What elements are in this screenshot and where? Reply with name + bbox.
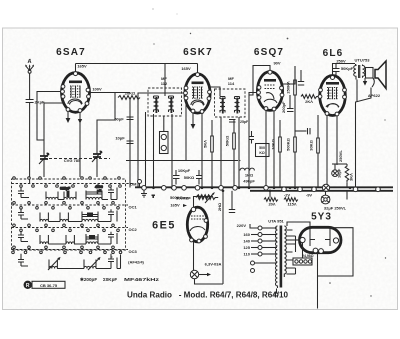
capacitor AF coupling: [229, 191, 235, 213]
wire MF112 primary down: [171, 114, 173, 188]
svg-text:165V: 165V: [170, 203, 180, 208]
resistor 30K: [309, 115, 320, 188]
wire MF114 left down: [220, 117, 222, 188]
svg-text:OC2: OC2: [129, 227, 138, 232]
resistor 20KOhm: [118, 91, 140, 100]
svg-text:250KΛ: 250KΛ: [286, 81, 291, 94]
bus terminals: [142, 186, 381, 192]
svg-text:2KΛ: 2KΛ: [305, 99, 313, 104]
variable capacitor CVG gang 2: [92, 150, 103, 162]
choke 1H: [240, 168, 254, 177]
svg-text:OC1: OC1: [129, 205, 138, 210]
svg-text:50pF: 50pF: [114, 117, 124, 122]
svg-text:32μF 250VL: 32μF 250VL: [324, 206, 347, 211]
switch row OM: [12, 182, 138, 187]
svg-text:250VL: 250VL: [338, 150, 343, 162]
resistor 10K: [271, 120, 282, 188]
wire AVC long line: [126, 160, 238, 162]
svg-text:6SQ7: 6SQ7: [254, 47, 284, 58]
electrolytic 32uF on bus: [322, 184, 329, 191]
wire 6SA7 top cap to AVC line: [75, 64, 77, 72]
svg-text:220V: 220V: [237, 223, 247, 228]
svg-text:2HΩ: 2HΩ: [217, 202, 222, 211]
switch contacts row OC2: [13, 224, 120, 232]
node grid line left: [44, 98, 63, 152]
terminal OM out: [138, 180, 142, 188]
lamp 6,3V-03A: [190, 262, 221, 279]
svg-text:6L6: 6L6: [323, 48, 344, 59]
svg-text:10KΩ: 10KΩ: [271, 138, 276, 149]
svg-text:-9V: -9V: [306, 193, 313, 198]
svg-text:165V: 165V: [77, 64, 87, 69]
wire AF coupling row: [295, 130, 307, 132]
tube 6SK7: [184, 73, 212, 114]
switch row OC2: [12, 227, 138, 232]
capacitor pair on bus: [173, 168, 203, 185]
capacitor 490pF: [243, 179, 255, 184]
resistor 500K AVC: [286, 137, 297, 152]
wire stubs below bus: [346, 192, 348, 200]
wire MF112 secondary down: [153, 114, 155, 188]
resistor 5K: [203, 120, 214, 188]
wire transformer bottom lead: [275, 289, 278, 297]
capacitor 50pF: [114, 117, 133, 122]
wire 6SK7 pin drop: [201, 113, 203, 187]
svg-text:20KΩ: 20KΩ: [125, 91, 136, 96]
wire plate line 6SA7 to 6SK7: [76, 63, 198, 65]
svg-text:500KΩ: 500KΩ: [286, 137, 291, 151]
tube 6SA7: [61, 72, 91, 113]
resistor 250K plate load: [286, 66, 297, 188]
svg-text:16μF: 16μF: [337, 168, 342, 178]
svg-text:6SK7: 6SK7: [183, 47, 213, 58]
wire antenna down: [29, 73, 31, 99]
wire 6SQ7 pin drops: [265, 110, 267, 187]
svg-text:10pF: 10pF: [115, 136, 125, 141]
svg-text:140: 140: [243, 239, 250, 244]
svg-text:50KpF: 50KpF: [341, 66, 354, 71]
wire 6SA7 screen right: [90, 92, 130, 94]
wire 6SA7 cathode to coil box: [79, 112, 81, 177]
svg-text:125: 125: [243, 245, 250, 250]
svg-text:200pF: 200pF: [281, 101, 286, 113]
svg-text:Σ0KpF: Σ0KpF: [103, 277, 117, 282]
svg-text:✱200pF: ✱200pF: [80, 277, 97, 282]
capacitor 25pF: [229, 120, 249, 125]
svg-text:025μF: 025μF: [60, 187, 71, 191]
wire osc section: [145, 112, 147, 188]
wire 6SK7 plate to MF114: [210, 87, 221, 96]
switch contacts row OC1: [13, 202, 120, 210]
resistor 2K grid: [301, 95, 319, 105]
wire 5Y3 cathode down: [317, 253, 319, 309]
svg-text:OM: OM: [130, 182, 137, 187]
svg-text:30KΩ: 30KΩ: [309, 139, 314, 150]
lower bus: [250, 190, 393, 192]
svg-text:250V: 250V: [336, 59, 346, 64]
wire field coil down: [356, 88, 372, 188]
svg-text:KΩ: KΩ: [259, 151, 265, 155]
wire transformer down: [356, 80, 358, 103]
mains taps: [237, 223, 277, 273]
wire 5Y3 plate right: [318, 228, 354, 276]
wire gang1 down: [43, 164, 45, 177]
svg-text:2KpF: 2KpF: [35, 100, 46, 105]
tube 6SQ7: [257, 70, 284, 111]
wire B+ feed: [332, 163, 347, 165]
svg-text:CVG 785: CVG 785: [64, 158, 81, 163]
svg-text:1HΩ: 1HΩ: [245, 173, 254, 178]
wire 6L6 plate up: [333, 64, 356, 76]
svg-text:-2V: -2V: [284, 193, 291, 198]
label 165V arrow: [170, 203, 187, 208]
capacitor 10pF: [115, 136, 133, 144]
wire 6SQ7 diode left: [249, 93, 257, 188]
wire 6SK7 grid AVC left: [138, 93, 184, 188]
svg-text:MF467kHz: MF467kHz: [124, 277, 160, 282]
wire 500K to 6E5 grid: [194, 197, 212, 208]
svg-text:3KΛ: 3KΛ: [349, 173, 354, 181]
tube 6E5: [187, 207, 208, 243]
wire 6SK7 cathode ground: [191, 113, 196, 129]
svg-text:AP622: AP622: [368, 93, 381, 98]
power transformer UTA951: [268, 219, 286, 289]
wire drop into MF112: [164, 64, 166, 93]
svg-text:5Y3: 5Y3: [311, 212, 332, 223]
svg-text:6E5: 6E5: [152, 220, 176, 232]
wire gang2 down: [96, 162, 98, 177]
svg-text:UTA 951: UTA 951: [268, 219, 284, 224]
svg-text:90V: 90V: [273, 61, 280, 66]
switch row OC3: [12, 249, 138, 254]
IF transformer MF112: [148, 76, 182, 116]
wire 6SA7 grid left: [37, 92, 61, 141]
padder trimmer box: [160, 116, 169, 154]
choke 2H: [217, 191, 223, 284]
wire MF114 right down: [238, 117, 240, 188]
svg-text:160: 160: [243, 232, 250, 237]
svg-text:10KpF: 10KpF: [178, 168, 191, 173]
svg-text:50KΩ: 50KΩ: [225, 135, 230, 146]
svg-text:165V: 165V: [181, 66, 191, 71]
svg-text:Unda Radio - Modd. R64/7, R6: Unda Radio - Modd. R64/7, R64/8, R64/10: [127, 291, 289, 300]
variable capacitor CVG gang 1: [39, 152, 50, 164]
capacitor coupling vertical plates: [308, 128, 311, 134]
svg-text:24,98Ω: 24,98Ω: [302, 254, 314, 258]
ground T: [141, 190, 155, 198]
svg-text:100V: 100V: [92, 87, 102, 92]
wire pilot drop: [325, 191, 327, 195]
svg-text:115Λ: 115Λ: [287, 202, 296, 207]
wire lamp down: [195, 279, 224, 284]
tube 6L6: [318, 76, 346, 116]
wire 6SA7 cathode ground: [66, 111, 71, 123]
wire 6SQ7 top cap: [249, 66, 270, 96]
resistor 50K: [225, 120, 236, 188]
svg-text:110: 110: [244, 252, 251, 257]
wire heater strip: [302, 243, 304, 259]
wire 6L6 cathode drops: [326, 115, 328, 187]
main bus: [135, 186, 393, 188]
svg-text:6,3V-03A: 6,3V-03A: [205, 262, 222, 267]
terminal strip 24,98ohm: [293, 254, 314, 265]
resistor 20ohm: [264, 198, 278, 207]
svg-text:6SA7: 6SA7: [56, 47, 86, 58]
svg-text:500KΩmax: 500KΩmax: [170, 195, 192, 200]
wire 6SK7 top cap: [197, 64, 199, 73]
band switch box: [12, 179, 126, 250]
svg-text:50KΩ: 50KΩ: [184, 175, 195, 180]
wire avc tie: [185, 101, 187, 161]
svg-text:OC3: OC3: [129, 249, 138, 254]
coil row OC1: [18, 209, 117, 221]
ground speaker: [363, 78, 367, 86]
electrolytic 16uF: [332, 150, 343, 178]
svg-text:5KΛ: 5KΛ: [203, 140, 208, 148]
svg-text:(AF42/4): (AF42/4): [128, 260, 144, 265]
capacitor 50KpF: [333, 64, 354, 76]
tube 5Y3: [300, 227, 342, 253]
svg-text:490pF: 490pF: [243, 179, 255, 184]
IF transformer MF114: [215, 76, 246, 117]
svg-text:25pF: 25pF: [240, 120, 249, 124]
capacitor coupling 6L6: [298, 82, 304, 86]
svg-text:UTU753: UTU753: [355, 58, 371, 63]
switch contacts row OC3: [12, 246, 122, 254]
resistor 115ohm: [284, 198, 298, 207]
potentiometer 500K volume: [176, 192, 218, 203]
loudspeaker AP622: [366, 61, 387, 89]
scan specks: [29, 8, 386, 296]
resistor 500K max: [170, 195, 210, 200]
wire grid line: [300, 70, 302, 82]
wire field to bus: [346, 183, 348, 188]
coil row OM: [18, 185, 117, 200]
wires primary drops from bus: [269, 191, 271, 198]
antenna: [25, 64, 34, 73]
coil row OC2: [18, 232, 117, 244]
resistor 3K field: [345, 164, 353, 183]
output transformer UTU753: [354, 58, 371, 80]
switch row OC1: [12, 205, 138, 210]
coil row OC3 variable: [18, 254, 121, 270]
potentiometer 500K tone: [249, 131, 269, 157]
svg-text:R: R: [26, 283, 30, 289]
svg-text:114: 114: [228, 81, 235, 86]
wire 6E5 cathode to lamp: [193, 242, 195, 270]
mechanical link gang: [44, 158, 110, 160]
wire 5Y3 heater left: [287, 239, 301, 241]
pilot lamp: [321, 195, 330, 204]
capacitor 2KpF: [26, 100, 45, 184]
svg-text:20Λ: 20Λ: [268, 202, 275, 207]
secondary taps: [287, 230, 296, 274]
switch contacts row OM: [13, 177, 122, 188]
svg-text:500: 500: [259, 146, 265, 150]
wire plate to load: [282, 66, 295, 84]
wire gang2 up: [97, 93, 115, 151]
wire 200pF to bus: [289, 95, 291, 109]
capacitor 200pF: [281, 101, 294, 113]
wire screen dropper down: [129, 98, 131, 188]
logo roundel: [24, 281, 66, 289]
bus junction dots: [152, 187, 351, 193]
svg-text:112: 112: [161, 81, 168, 86]
wire 5Y3 plate left: [287, 222, 310, 233]
svg-text:CB 36-75: CB 36-75: [40, 283, 58, 288]
